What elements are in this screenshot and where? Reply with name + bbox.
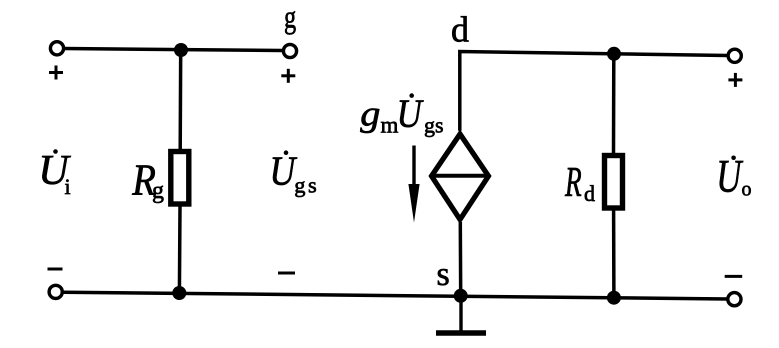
resistor R_g (box)	[171, 152, 189, 205]
terminal: output - (open circle)	[728, 293, 741, 306]
wire: Rg top lead	[178, 50, 182, 150]
wire: diamond mid bar	[432, 174, 489, 178]
svg-text:U: U	[716, 149, 744, 201]
svg-text:g: g	[152, 178, 164, 204]
wire: Rg bottom lead	[178, 207, 182, 294]
label g_m U_gs (controlled source value)	[360, 93, 443, 138]
svg-text:d: d	[451, 10, 469, 50]
svg-text:U: U	[270, 149, 298, 194]
junction: top of Rd	[607, 47, 621, 61]
resistor R_d (box)	[605, 156, 623, 209]
label: + (input top)	[49, 66, 63, 80]
junction: top of Rg	[174, 43, 188, 57]
label U_o with dot	[716, 149, 751, 201]
terminal: input + (open circle)	[50, 42, 63, 55]
dependent current source (diamond)	[432, 134, 489, 220]
label U_gs with dot	[270, 149, 320, 197]
arrow: current direction (downward)	[408, 146, 419, 223]
node g label	[284, 0, 296, 35]
label: - (input bottom)	[48, 268, 63, 271]
svg-text:g: g	[360, 94, 380, 134]
svg-text:R: R	[564, 158, 582, 205]
label: + (output top)	[728, 73, 742, 87]
wire: drain top rail (corner at d, to output terminal)	[460, 52, 728, 131]
label R_g	[131, 155, 164, 204]
terminal: g (open circle)	[283, 44, 296, 57]
wire: bottom rail full width	[63, 292, 728, 299]
wire: Rd top lead	[612, 54, 616, 154]
terminal: output + (open circle)	[728, 49, 741, 62]
svg-text:U: U	[397, 93, 425, 137]
svg-text:gs: gs	[294, 172, 319, 197]
label: - (output bottom)	[725, 275, 743, 278]
junction: bottom of Rg	[172, 286, 186, 300]
label: + (gate)	[281, 69, 295, 83]
label R_d	[564, 158, 595, 206]
svg-text:s: s	[437, 256, 450, 293]
label U_i with dot	[38, 148, 71, 199]
svg-text:o: o	[742, 178, 752, 200]
wire: input top rail from input+ terminal to gate terminal	[64, 49, 282, 51]
junction: bottom of Rd	[607, 291, 621, 305]
svg-text:gs: gs	[424, 113, 444, 138]
label: - (gate-source bottom)	[278, 272, 295, 275]
wire: Rd bottom lead	[612, 210, 616, 298]
wire: source lead from diamond to s node	[459, 222, 463, 296]
svg-text:g: g	[284, 0, 296, 35]
junction: s node	[454, 289, 468, 303]
ground	[436, 296, 486, 333]
terminal: input - (open circle)	[49, 285, 62, 298]
svg-text:d: d	[584, 181, 595, 206]
svg-text:i: i	[65, 174, 71, 199]
